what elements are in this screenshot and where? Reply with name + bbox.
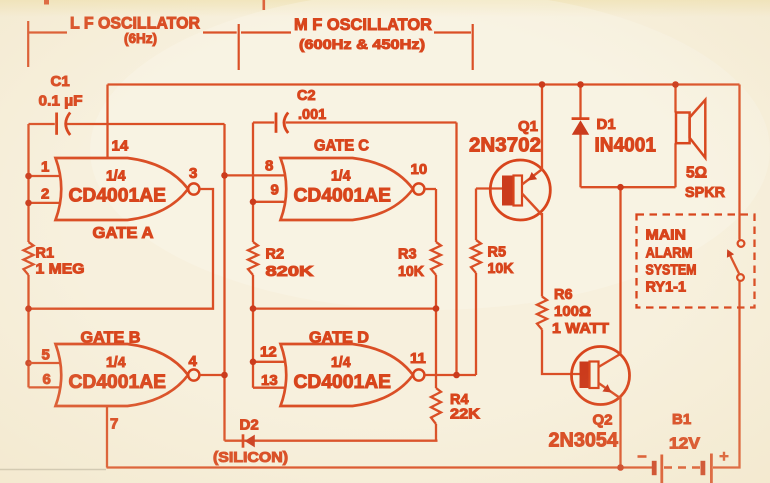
MF oscillator bracket: [239, 24, 473, 70]
wire pin11 output: [424, 374, 476, 376]
node speaker bottom junction: [617, 184, 624, 191]
wire pin12 stub: [253, 361, 285, 363]
node C2 leg junction: [453, 372, 460, 379]
wire pin8 stub: [225, 174, 286, 176]
crease artifact: [0, 469, 106, 471]
resistor R1: [24, 242, 34, 275]
op-gate U1C body: [281, 158, 414, 220]
resistor R2: [248, 242, 258, 275]
wire C2 right leg: [455, 123, 457, 376]
transistor Q1 body: [490, 160, 550, 220]
node pin2 junction: [25, 200, 32, 207]
paper glow: [90, 0, 770, 310]
resistor R5: [471, 240, 481, 273]
wire timing node: [253, 307, 436, 309]
wire pin2 stub: [29, 202, 61, 204]
Q2 emitter arrow: [602, 384, 611, 392]
wire C1 net: [29, 123, 225, 125]
resistor R4: [431, 388, 441, 424]
wire Q2 collector riser: [619, 187, 621, 353]
LF oscillator bracket: [28, 21, 237, 67]
Q2 emitter line: [599, 383, 621, 398]
battery B1 long plate 2: [710, 454, 713, 483]
wire speaker leads: [674, 85, 676, 188]
U1A output bubble: [188, 183, 199, 194]
stray mark top edge: [44, 0, 49, 5]
wire Q1 emitter to rail: [541, 85, 543, 171]
Q1 emitter arrow: [528, 172, 537, 181]
wire left input rail: [27, 124, 29, 387]
Q2 base bar: [580, 362, 599, 389]
wire gate B output: [199, 374, 224, 376]
wire +12V top rail: [108, 83, 740, 85]
node pin1 junction: [25, 173, 32, 180]
capacitor C2: [276, 113, 288, 134]
node gate B output junction: [221, 372, 228, 379]
capacitor C1: [57, 113, 71, 136]
battery dashed link: [664, 466, 701, 468]
wire gate A feedback: [29, 189, 214, 309]
node R2 bottom junction: [250, 305, 257, 312]
node speaker rail junction: [672, 81, 679, 88]
node pin12 junction: [250, 359, 257, 366]
main alarm system dashed box: [637, 215, 755, 308]
wire right rail upper: [738, 85, 740, 240]
wire pin9 stub: [253, 201, 285, 203]
relay switch blade: [729, 253, 740, 275]
U1B output bubble: [188, 369, 199, 380]
wire speaker bottom net: [581, 186, 676, 188]
node pin9 junction: [250, 199, 257, 206]
wire Q1 base stub: [476, 187, 502, 189]
Q2 collector line: [599, 355, 620, 368]
wire pin13 stub: [253, 387, 285, 389]
wire pin6 stub: [29, 386, 61, 388]
diode D1: [572, 119, 590, 135]
wire D2 net: [225, 440, 438, 442]
diode D2: [243, 434, 255, 447]
wire pin1 stub: [29, 175, 61, 177]
wire gate C output: [424, 188, 436, 190]
speaker SPKR: [676, 100, 705, 158]
node pin8 junction: [221, 172, 228, 179]
stray mark top edge 2: [263, 0, 266, 10]
Q1 emitter line: [522, 169, 543, 185]
U1D output bubble: [413, 369, 424, 380]
wire R2 rail: [252, 123, 254, 388]
relay contact bottom: [737, 274, 744, 281]
U1C output bubble: [413, 183, 424, 194]
battery B1 long plate 1: [660, 455, 663, 483]
battery minus sign: [638, 455, 647, 458]
Q1 collector line: [522, 194, 542, 216]
node pin5 junction: [25, 360, 32, 367]
transistor Q2 body: [572, 347, 630, 405]
resistor R3: [431, 242, 441, 275]
wire D1 branch: [579, 85, 581, 188]
wire R6 rail: [542, 213, 580, 374]
Q1 base bar: [502, 176, 522, 206]
wire R5 rail: [475, 189, 477, 376]
op-gate U1B body: [56, 344, 189, 406]
wire pin5 stub: [29, 362, 61, 364]
battery B1 minus plate: [652, 461, 657, 475]
op-gate U1A body: [56, 158, 189, 220]
node Q2 emitter ground junction: [617, 464, 624, 471]
wire C2 net: [253, 121, 457, 123]
wire bottom ground rail: [107, 466, 653, 468]
wire right rail lower: [713, 281, 740, 468]
node R3 bottom junction: [433, 305, 440, 312]
wire coupling rail: [223, 124, 225, 441]
battery B1 plus short plate: [701, 461, 706, 475]
wire Q2 emitter fall: [619, 398, 621, 468]
wire R3 rail: [435, 189, 437, 441]
resistor R6: [537, 297, 547, 330]
node Q1 rail junction: [539, 81, 546, 88]
battery plus sign: [720, 452, 729, 461]
relay blade arrow: [727, 249, 734, 257]
wire pin14 to +12V: [106, 85, 108, 159]
node R1 bottom junction: [25, 305, 32, 312]
relay contact top: [738, 240, 745, 247]
op-gate U1D body: [281, 344, 414, 406]
node D1 rail junction: [577, 81, 584, 88]
wire pin7: [106, 406, 108, 468]
